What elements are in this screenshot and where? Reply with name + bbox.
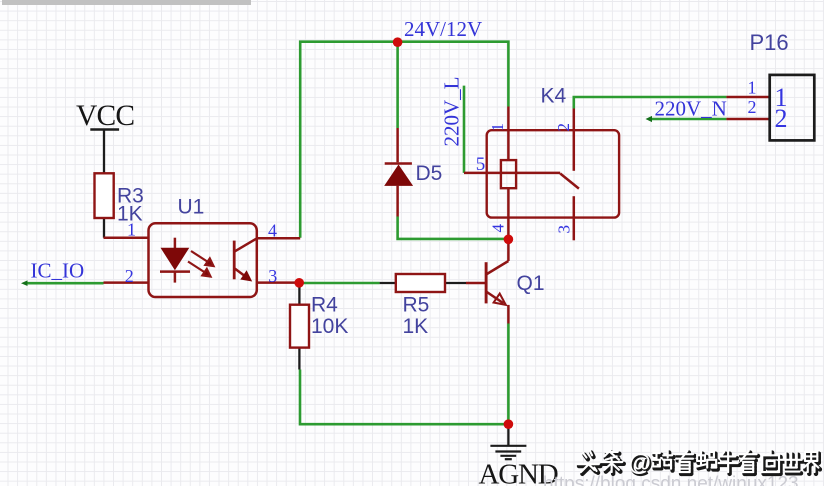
svg-text:R4: R4 (311, 294, 338, 317)
svg-text:2: 2 (748, 97, 757, 117)
svg-text:4: 4 (268, 221, 277, 241)
K4 pin 1 (507, 107, 510, 161)
watermark white layer (578, 451, 819, 472)
U1 pin 1 (104, 236, 149, 239)
resistor R5 (396, 274, 445, 292)
K4 pin 2 (573, 109, 576, 171)
wire D5 anode to collector node (398, 217, 509, 239)
U1 LED anode lead (174, 238, 177, 249)
wire 24V rail horizontal (300, 42, 508, 238)
220V_N wire end arrow (646, 116, 653, 122)
diode D5 (385, 128, 412, 217)
U1 pin 3 (257, 281, 299, 284)
svg-text:P16: P16 (750, 30, 789, 55)
U1 phototransistor emitter (235, 269, 250, 280)
svg-text:3: 3 (268, 266, 277, 286)
resistor R4 (290, 305, 309, 348)
svg-text:@: @ (629, 450, 651, 476)
svg-text:R5: R5 (403, 294, 430, 317)
U1 LED cathode bar (160, 270, 190, 273)
resistor R3 (95, 173, 114, 218)
wire 24V to D5 cathode (396, 42, 399, 128)
IC_IO wire end arrow (21, 280, 28, 286)
svg-text:3: 3 (555, 225, 574, 234)
wire R3 to U1 pin1 (103, 218, 105, 238)
wire R4 to AGND rail (300, 370, 508, 425)
junction node collector/K4 pin4 (504, 235, 514, 245)
svg-text:1K: 1K (403, 315, 429, 338)
wire U1 pin3 node to R4 (298, 283, 300, 305)
wire Q1 emitter to AGND (507, 324, 510, 425)
junction node emitter/AGND (504, 419, 514, 429)
connector P16 body (770, 75, 815, 140)
wire R5 left lead (380, 282, 396, 284)
U1 emitter arrowhead (240, 270, 252, 281)
svg-text:D5: D5 (416, 162, 443, 185)
wire K4 pin2 to P16 pin1 (574, 97, 727, 109)
U1 phototransistor base bar (233, 241, 236, 280)
svg-text:IC_IO: IC_IO (31, 259, 85, 283)
wire 220V_N stub (650, 118, 727, 121)
P16 pin 2 wire (726, 118, 769, 121)
U1 LED cathode lead (174, 272, 177, 283)
svg-text:VCC: VCC (76, 100, 134, 132)
svg-text:K4: K4 (541, 85, 567, 108)
junction node U1 pin3 (294, 278, 304, 288)
svg-text:Q1: Q1 (517, 272, 545, 295)
wire R4 bottom lead (298, 348, 300, 370)
U1 phototransistor collector (235, 238, 257, 251)
ground AGND symbol (490, 446, 526, 459)
ground stem (507, 424, 509, 446)
svg-text:220V_L: 220V_L (440, 77, 464, 147)
K4 switch blade (560, 174, 579, 189)
svg-text:1: 1 (127, 220, 136, 240)
K4 coil (501, 160, 516, 188)
watermark shadow layer (579, 453, 820, 474)
svg-text:2: 2 (125, 266, 134, 286)
K4 pin 3 (573, 196, 576, 240)
junction node 24V/D5 (393, 37, 403, 47)
svg-text:U1: U1 (178, 196, 205, 219)
svg-text:1: 1 (488, 123, 507, 132)
U1 pin 2 (104, 281, 149, 284)
top grey bar (2, 0, 251, 5)
svg-text:4: 4 (489, 224, 508, 233)
U1 pin 4 (257, 237, 300, 240)
svg-text:220V_N: 220V_N (655, 97, 727, 121)
svg-text:24V/12V: 24V/12V (404, 17, 482, 41)
U1 light arrow 1 (188, 251, 214, 277)
power bar VCC (90, 128, 119, 131)
K4 pin 4 (507, 188, 510, 242)
MAIN SVG CONTENT (25, 42, 726, 425)
wire U1 pin3 to R5 (299, 282, 379, 285)
relay K4 body (487, 130, 619, 217)
svg-text:2: 2 (554, 123, 573, 132)
U1 LED triangle (161, 248, 190, 270)
wire VCC to R3 (103, 130, 105, 174)
wire R5 right lead (445, 282, 466, 284)
U1 light arrow 2 (188, 262, 205, 273)
svg-text:10K: 10K (311, 315, 348, 338)
op-amp U1 optocoupler body (149, 223, 257, 297)
P16 pin 1 wire (726, 96, 769, 99)
wire IC_IO (25, 282, 104, 285)
K4 pin 5 + coil feed (464, 172, 560, 175)
svg-text:1: 1 (748, 78, 757, 98)
transistor Q1 (466, 242, 508, 324)
svg-text:5: 5 (476, 154, 486, 175)
wire 220V_L (463, 86, 466, 173)
svg-text:2: 2 (775, 104, 788, 133)
